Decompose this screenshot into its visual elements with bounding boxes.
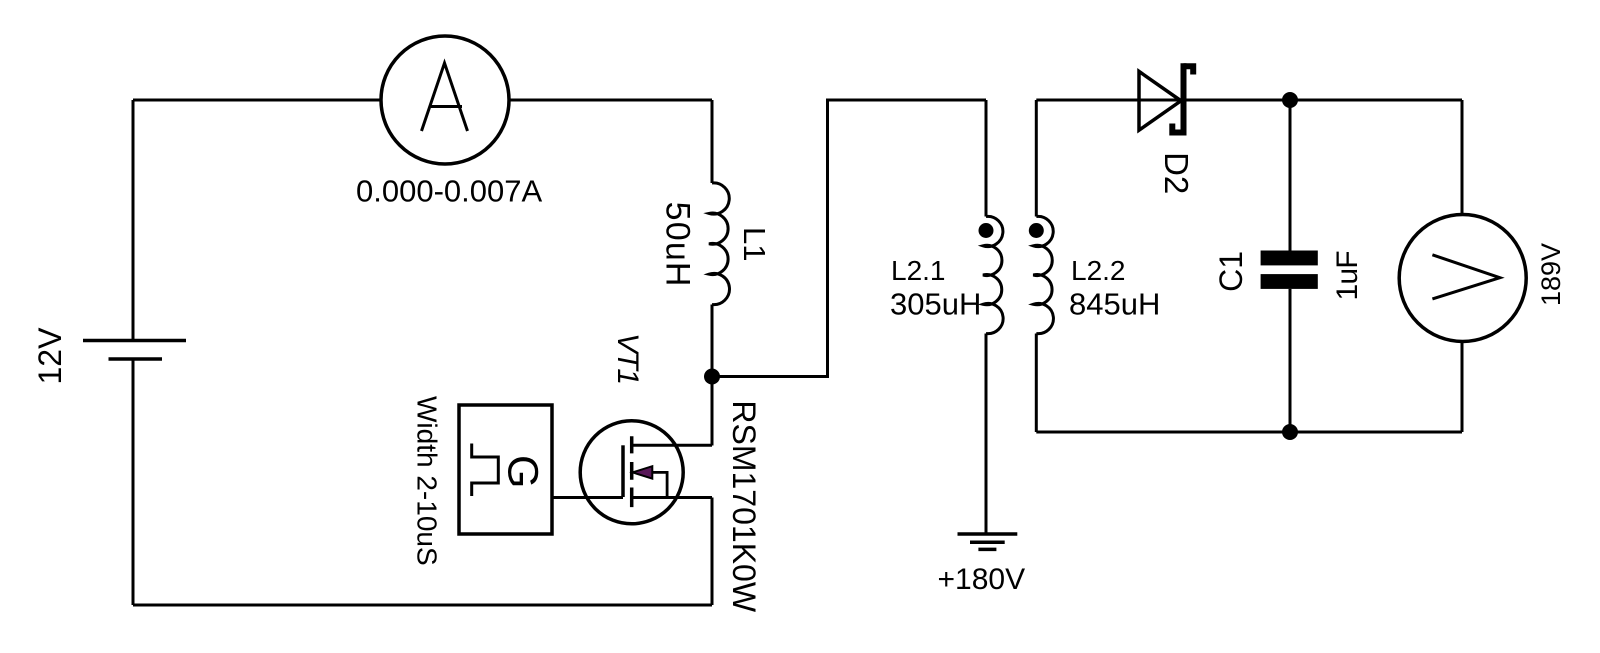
wire: L2.2 bottom lead	[1035, 334, 1038, 433]
node: drain junction dot	[704, 369, 720, 385]
capacitor C1 top plate	[1261, 251, 1318, 266]
wire: C1 top lead	[1289, 100, 1292, 251]
transistor Q1 gate bar	[621, 445, 625, 497]
wire: corner down to L1 top	[711, 100, 714, 183]
transformer secondary phase dot	[1029, 223, 1044, 238]
wire: L2.1 bottom to ground	[985, 334, 988, 534]
svg-text:845uH: 845uH	[1069, 287, 1160, 322]
transformer secondary L2.2 coil	[1033, 216, 1053, 333]
svg-text:D2: D2	[1158, 152, 1195, 194]
wire: L2.2 top lead	[1035, 100, 1038, 217]
wire: L1 bottom to drain node	[711, 305, 714, 377]
ammeter letter A	[422, 63, 468, 131]
diode D2 zener bottom hook	[1172, 124, 1183, 133]
diode D2 zener bar	[1181, 63, 1187, 135]
wire top rail right	[1036, 99, 1462, 102]
wire top rail: ammeter to L1 corner	[509, 99, 712, 102]
transistor Q1 body arrow	[633, 466, 653, 478]
node: bottom right junction dot	[1282, 424, 1298, 440]
svg-text:Width 2-10uS: Width 2-10uS	[411, 396, 442, 566]
generator G1 box	[459, 405, 552, 534]
svg-text:C1: C1	[1213, 251, 1249, 292]
battery V1 short plate	[109, 357, 163, 361]
capacitor C1 bottom plate	[1261, 274, 1318, 289]
transformer primary L2.1 coil	[983, 216, 1003, 333]
svg-text:0.000-0.007A: 0.000-0.007A	[356, 173, 542, 208]
wire: drain lead down	[711, 377, 714, 446]
transistor Q1 body connection	[652, 472, 667, 497]
transistor Q1 drain stub	[632, 444, 712, 447]
transformer primary phase dot	[979, 223, 994, 238]
battery V1 long plate	[83, 339, 186, 343]
svg-text:RSM1701K0W: RSM1701K0W	[726, 400, 762, 612]
svg-text:L2.1: L2.1	[891, 255, 946, 286]
svg-text:189V: 189V	[1536, 243, 1566, 306]
wire: battery positive lead	[132, 100, 135, 339]
wire: voltmeter bottom lead	[1461, 343, 1464, 433]
svg-text:1uF: 1uF	[1331, 251, 1364, 301]
wire: L2.1 top lead	[985, 100, 988, 217]
svg-text:305uH: 305uH	[890, 287, 981, 322]
transistor Q1 source stub	[632, 496, 712, 499]
diode D2 zener top hook	[1184, 66, 1194, 74]
voltmeter U2	[1399, 215, 1526, 342]
wire: voltmeter top lead	[1461, 100, 1464, 214]
transistor Q1 channel segments	[630, 436, 634, 507]
transistor Q1 circle	[580, 421, 683, 524]
svg-text:50uH: 50uH	[659, 202, 697, 288]
voltmeter letter V	[1432, 255, 1500, 299]
ground symbol	[958, 534, 1018, 549]
svg-text:G: G	[499, 455, 547, 488]
diode D2 triangle	[1139, 71, 1181, 130]
wire: C1 bottom lead	[1289, 289, 1292, 432]
wire bottom rail right	[1036, 431, 1462, 434]
generator pulse glyph	[472, 444, 499, 497]
wire: generator to gate	[552, 496, 624, 499]
wire: battery negative lead down	[132, 360, 135, 605]
ammeter U1	[381, 36, 509, 164]
svg-text:12V: 12V	[32, 327, 68, 385]
svg-text:L2.2: L2.2	[1071, 255, 1126, 286]
svg-text:VT1: VT1	[611, 333, 644, 384]
svg-text:+180V: +180V	[938, 563, 1026, 596]
wire bottom rail left	[133, 604, 712, 607]
inductor L1 coil	[709, 183, 729, 305]
node: top right junction dot	[1282, 92, 1298, 108]
wire top rail left: battery to ammeter	[133, 99, 381, 102]
wire: junction to transformer riser	[712, 100, 986, 377]
svg-text:L1: L1	[737, 227, 772, 261]
wire: source lead to bottom rail	[711, 498, 714, 606]
